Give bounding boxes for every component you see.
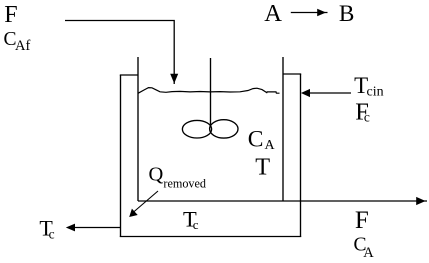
tank inner left wall: [137, 57, 139, 201]
stirrer shaft: [210, 58, 212, 127]
jacket bottom: [120, 236, 301, 238]
impeller left blade: [182, 120, 211, 138]
svg-text:C: C: [248, 127, 264, 153]
label Q removed: [149, 163, 207, 190]
tank bottom and product outlet wire: [138, 200, 427, 202]
liquid surface wavy line: [138, 88, 280, 94]
svg-text:c: c: [193, 217, 199, 232]
impeller right blade: [210, 120, 238, 138]
wire feed line into tank: [65, 21, 174, 85]
svg-text:B: B: [339, 1, 355, 27]
reaction label A -> B: [264, 0, 354, 27]
arrowhead product outlet: [416, 197, 425, 205]
svg-text:Af: Af: [15, 38, 30, 54]
svg-text:A: A: [264, 0, 282, 27]
jacket outer left wall: [120, 75, 122, 237]
svg-text:removed: removed: [163, 177, 206, 191]
svg-text:T: T: [255, 154, 270, 181]
coolant inlet wire: [304, 92, 351, 94]
arrowhead coolant outlet: [66, 224, 75, 232]
svg-text:cin: cin: [367, 85, 384, 100]
label Tc coolant outlet: [39, 216, 54, 242]
jacket top right lip: [283, 73, 301, 75]
label CAf (feed concentration): [4, 29, 31, 54]
jacket outer right wall: [300, 74, 302, 237]
svg-text:A: A: [265, 138, 276, 153]
label Tc inside jacket: [183, 207, 199, 233]
tank inner right wall: [282, 57, 284, 201]
jacket top left lip: [120, 74, 138, 76]
label Fc (coolant flow): [355, 99, 370, 126]
svg-text:F: F: [355, 207, 369, 234]
label CA product outlet: [354, 235, 375, 261]
svg-text:c: c: [364, 110, 370, 125]
wire Q removed pointer: [133, 191, 158, 213]
arrowhead feed into tank: [170, 74, 178, 84]
label CA inside tank: [248, 127, 276, 154]
svg-text:A: A: [363, 245, 374, 261]
label Tcin: [354, 73, 384, 100]
svg-text:F: F: [4, 2, 17, 28]
svg-text:Q: Q: [149, 163, 164, 185]
arrowhead coolant inlet: [301, 89, 310, 97]
coolant outlet wire: [70, 227, 121, 229]
arrowhead Q removed pointer: [129, 209, 138, 217]
svg-text:c: c: [49, 226, 55, 241]
